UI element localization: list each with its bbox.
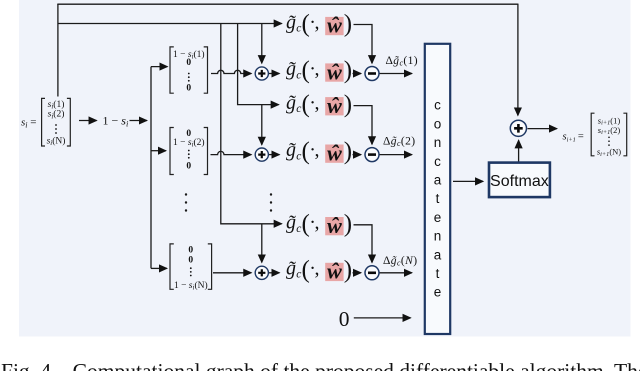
wire: sub-drop into adder 2 <box>261 105 263 145</box>
svg-text:g̃: g̃ <box>286 212 296 234</box>
ellipsis dots left column <box>185 193 187 211</box>
svg-text:): ) <box>344 211 352 238</box>
svg-text:Softmax: Softmax <box>490 173 549 190</box>
svg-text:0: 0 <box>186 162 191 172</box>
wire: sub-drop into adder 3 <box>261 224 263 262</box>
subtractor node 2 (circled minus) <box>365 148 379 162</box>
svg-text:1 − si(2): 1 − si(2) <box>173 137 205 149</box>
wire: g-tilde standalone 2 elbow into subtractor 2 <box>354 106 373 145</box>
g-tilde expression main 2 <box>286 138 352 165</box>
wire: softmax up into final adder <box>518 140 520 162</box>
svg-text:,: , <box>315 58 320 80</box>
wire: branch into vector 3 <box>151 267 167 269</box>
svg-text:1 − si: 1 − si <box>103 114 129 129</box>
wire: drop from bus B feeding row 2 <box>238 24 279 105</box>
vector s_i+1 brackets <box>591 113 627 156</box>
svg-text:ŵ: ŵ <box>326 59 342 84</box>
svg-text:g̃: g̃ <box>286 12 296 34</box>
svg-text:,: , <box>315 139 320 161</box>
svg-text:ŵ: ŵ <box>326 259 342 284</box>
softmax block <box>489 163 550 198</box>
concatenate block <box>425 44 450 334</box>
g-tilde expression standalone 1 <box>286 11 352 38</box>
svg-text:ŵ: ŵ <box>326 13 342 38</box>
wire: vector 2 to adder 2 (hop over drop) <box>211 151 252 154</box>
svg-text:,: , <box>315 92 320 114</box>
wire: adder 1 to g-tilde main row 1 <box>269 73 280 75</box>
wire: drop from bus B feeding row 3 <box>221 24 282 224</box>
wire: branch into vector 1 <box>151 66 167 68</box>
wire: vector 3 to adder 3 <box>213 272 251 274</box>
svg-text:,: , <box>315 212 320 234</box>
adder node 1 (circled plus) <box>255 67 268 80</box>
svg-text:,: , <box>315 12 320 34</box>
svg-text:): ) <box>344 91 352 118</box>
subtractor node 3 (circled minus) <box>365 266 379 280</box>
masked vector 1 entries <box>173 49 205 94</box>
wire: g-tilde standalone 3 elbow into subtractor 3 <box>354 225 373 263</box>
wire: drop from bus A into final adder <box>517 4 519 116</box>
svg-text:): ) <box>344 256 352 283</box>
svg-text:ŵ: ŵ <box>326 93 342 118</box>
masked vector 3 entries <box>174 245 208 291</box>
wire: top bus A (s_i to final adder) <box>57 3 518 5</box>
adder node 2 (circled plus) <box>255 148 268 161</box>
wire: branch vertical line <box>150 67 152 269</box>
g-tilde expression main 1 <box>286 57 352 84</box>
masked vector 1 brackets <box>170 47 208 93</box>
vector s_i+1 entries <box>597 115 621 158</box>
svg-text:0: 0 <box>186 84 191 94</box>
wire: subtractor 2 to concatenate <box>379 154 411 156</box>
svg-text:): ) <box>344 138 352 165</box>
svg-text:si(N): si(N) <box>47 136 66 148</box>
wire: one-minus-s to branch line <box>130 120 147 122</box>
svg-text:Δg̃c(N): Δg̃c(N) <box>383 255 417 268</box>
wire: g-tilde main 2 into subtractor 2 <box>353 154 361 156</box>
wire: final adder to s_i+1 <box>528 128 557 130</box>
masked vector 2 brackets <box>170 128 208 175</box>
svg-text:,: , <box>315 257 320 279</box>
svg-text:0: 0 <box>188 256 193 266</box>
adder node 3 (circled plus) <box>255 266 268 279</box>
svg-text:g̃: g̃ <box>286 92 296 114</box>
g-tilde expression standalone 3 <box>286 211 352 238</box>
wire: subtractor 1 to concatenate <box>379 73 411 75</box>
final adder node (circled plus) <box>510 120 526 136</box>
wire: g-tilde main 1 into subtractor 1 <box>353 73 361 75</box>
wire: subtractor 3 to concatenate <box>379 272 411 274</box>
svg-text:ŵ: ŵ <box>326 213 342 238</box>
vector s_i brackets <box>42 98 71 146</box>
wire: adder 3 to g-tilde main row 3 <box>269 272 280 274</box>
wire: g-tilde main 3 into subtractor 3 <box>353 272 361 274</box>
wire: vector 1 to adder 1 (hops over two drops) <box>211 70 251 73</box>
svg-text:0: 0 <box>188 245 193 255</box>
wire: bus B (s_i to g-tilde row 1) <box>58 23 282 25</box>
wire: zero to concatenate <box>354 317 411 319</box>
svg-text:ŵ: ŵ <box>326 140 342 165</box>
wire: adder 2 to g-tilde main row 2 <box>269 154 280 156</box>
svg-text:g̃: g̃ <box>286 58 296 80</box>
svg-text:0: 0 <box>339 307 350 331</box>
svg-text:g̃: g̃ <box>286 257 296 279</box>
wire: drop from bus B into adder 1 <box>261 24 263 64</box>
subtractor node 1 (circled minus) <box>365 67 379 81</box>
wire: g-tilde standalone 1 elbow into subtractor 1 <box>354 25 373 64</box>
svg-text:si =: si = <box>21 117 36 130</box>
wire: s_i to one-minus-s <box>79 120 97 122</box>
svg-text:): ) <box>344 11 352 38</box>
svg-text:): ) <box>344 57 352 84</box>
g-tilde expression main 3 <box>286 256 352 283</box>
svg-text:g̃: g̃ <box>286 139 296 161</box>
wire: branch into vector 2 <box>151 150 166 152</box>
masked vector 3 brackets <box>170 244 212 289</box>
vector s_i entries <box>47 99 66 147</box>
wire: s_i vector up to top bus <box>57 4 59 96</box>
svg-text:si(2): si(2) <box>48 109 65 121</box>
svg-text:0: 0 <box>186 58 191 68</box>
masked vector 2 entries <box>173 129 205 172</box>
wire: concatenate to softmax <box>453 180 483 182</box>
svg-text:Fig. 4. Computational graph: Fig. 4. Computational graph of the propo… <box>1 359 640 371</box>
ellipsis dots right column <box>270 193 272 211</box>
svg-text:1 − si(N): 1 − si(N) <box>174 280 208 292</box>
g-tilde expression standalone 2 <box>286 91 352 118</box>
